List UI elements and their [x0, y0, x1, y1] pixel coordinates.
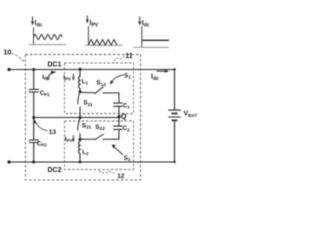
inductor L1	[79, 70, 80, 92]
corner dot bottom	[173, 161, 175, 163]
inductor L2	[79, 139, 80, 162]
leader squiggle for 12	[99, 171, 115, 174]
leader from 13	[35, 121, 47, 131]
waveform 1 current arrow	[32, 17, 34, 24]
svg-text:C1: C1	[123, 104, 130, 110]
outer dashed box	[25, 55, 140, 180]
inner dashed box 12	[65, 121, 134, 170]
svg-text:IPV: IPV	[65, 136, 73, 143]
leader squiggle for 11	[114, 56, 125, 62]
waveform 3 flat dc line	[142, 39, 169, 41]
switch S12 blade	[95, 87, 104, 94]
switch S22 blade	[95, 134, 104, 140]
input terminal top	[7, 68, 10, 71]
waveform 1 sine ripple	[34, 34, 63, 39]
leader from 10	[12, 54, 25, 62]
capacitor CP2	[29, 140, 39, 143]
svg-text:Idc: Idc	[35, 20, 43, 29]
battery wire top	[174, 70, 176, 110]
svg-text:12: 12	[117, 173, 125, 180]
svg-text:IPV: IPV	[90, 20, 99, 29]
waveform 2 current arrow	[86, 16, 88, 22]
curved arrow for Ipv	[47, 73, 51, 80]
wire Q node to C2	[118, 117, 120, 126]
svg-text:IPV: IPV	[63, 74, 71, 81]
junction bottom rail / left rail	[32, 161, 35, 164]
waveform 2 axis	[87, 26, 89, 45]
arrow S2	[115, 148, 123, 155]
waveform 2 triangle ripple	[88, 40, 117, 45]
battery wire bottom	[174, 120, 176, 162]
waveform 1 baseline	[29, 44, 66, 46]
svg-text:S1: S1	[124, 73, 131, 79]
svg-text:C2: C2	[123, 126, 130, 132]
inner dashed box 11	[65, 63, 134, 114]
svg-text:VBAT: VBAT	[184, 111, 198, 118]
Q node junction	[117, 115, 120, 118]
svg-text:13: 13	[49, 129, 57, 136]
switch S11	[78, 92, 80, 118]
waveform 3 current arrow	[139, 17, 141, 24]
left rail wire	[33, 70, 35, 163]
svg-text:S22: S22	[95, 124, 105, 132]
phase2 current arrow down	[72, 135, 74, 140]
waveform 3 baseline	[134, 46, 170, 48]
svg-text:S12: S12	[96, 80, 106, 88]
capacitor C1	[113, 103, 122, 106]
mid Q-line wire	[34, 117, 119, 119]
svg-text:S2: S2	[124, 156, 131, 162]
node B junction	[79, 138, 82, 141]
input terminal bottom	[7, 160, 10, 163]
bottom rail wire	[9, 161, 175, 163]
svg-text:L2: L2	[82, 150, 89, 156]
switch S21	[78, 119, 80, 140]
svg-text:S11: S11	[83, 100, 93, 108]
svg-text:Idc: Idc	[151, 73, 159, 82]
battery VBAT	[168, 110, 181, 117]
capacitor CP1	[29, 89, 39, 92]
svg-text:DC1: DC1	[48, 62, 62, 69]
phase1 current arrow down	[72, 74, 74, 79]
waveform 1 axis	[33, 28, 35, 45]
waveform 2 baseline	[85, 44, 123, 46]
svg-text:L1: L1	[82, 79, 89, 85]
wire C1 to Q node	[118, 106, 120, 116]
svg-text:CP1: CP1	[40, 91, 50, 97]
junction top rail / L1	[79, 68, 82, 71]
node A junction	[79, 90, 82, 93]
svg-text:S21: S21	[82, 122, 92, 130]
waveform 3 axis	[141, 26, 143, 47]
switch S22 branch wire	[80, 129, 119, 139]
svg-text:CP2: CP2	[37, 141, 47, 147]
junction S11 / Q-line	[79, 116, 82, 119]
svg-text:Idc: Idc	[142, 20, 150, 29]
junction left rail / Q-line	[32, 116, 35, 119]
svg-text:11: 11	[125, 53, 133, 60]
svg-text:Q: Q	[121, 111, 127, 120]
switch S12 branch wire	[80, 92, 119, 103]
arrow S1	[112, 75, 124, 82]
junction bottom rail / L2	[79, 161, 82, 164]
arrow Idc output	[157, 70, 166, 72]
svg-text:10: 10	[4, 50, 12, 57]
junction top rail / left rail	[32, 68, 35, 71]
capacitor C2	[113, 126, 122, 129]
corner dot top	[173, 68, 175, 70]
top rail wire	[9, 69, 175, 71]
svg-text:DC2: DC2	[48, 167, 62, 174]
